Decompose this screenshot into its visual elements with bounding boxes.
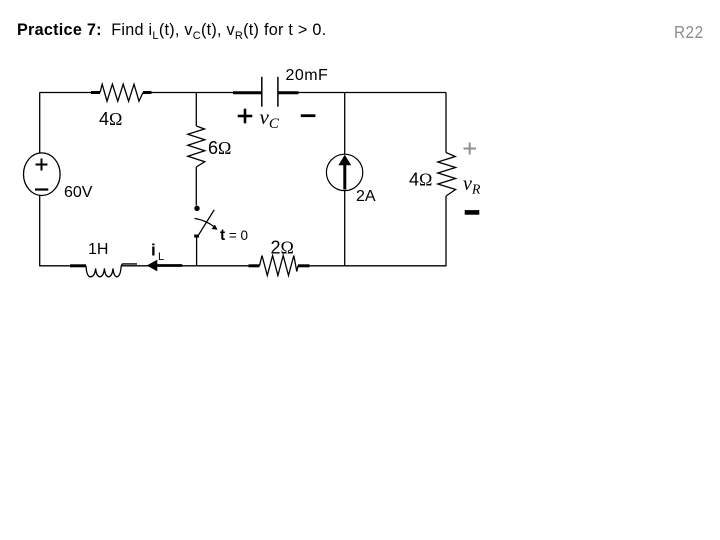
resistor 2ohm (bottom zigzag) [249,256,310,276]
wire: top-left horizontal segment [40,92,92,94]
label minus sign of vC [301,114,316,117]
wire: switch to bottom wire [196,238,198,267]
slide tag R22 [674,22,704,43]
svg-text:4Ω: 4Ω [409,170,432,190]
resistor 6ohm (vertical zigzag) [188,126,205,167]
title text [17,21,326,40]
svg-text:6Ω: 6Ω [208,138,231,158]
switch t=0 (opening switch) [194,206,217,238]
wire: current source branch lower [344,191,346,267]
wire: top right segment [299,92,447,94]
svg-text:2A: 2A [356,188,376,205]
wire: right branch upper [445,93,447,153]
svg-text:vR: vR [463,173,481,198]
wire: left vertical upper (to voltage source) [39,93,41,154]
svg-text:60V: 60V [64,184,93,201]
label plus sign of vC [238,109,253,124]
current source I1 2A (circle with up arrow) [326,154,362,190]
svg-text:L: L [158,251,164,263]
wire: bottom right segment [310,265,447,267]
svg-text:i: i [151,241,156,260]
resistor 4ohm right (vertical zigzag) [438,153,456,197]
capacitor 20mF [233,77,299,107]
svg-text:2Ω: 2Ω [271,238,294,258]
wire: top middle segment to capacitor [152,92,234,94]
svg-text:20mF: 20mF [286,67,329,84]
svg-text:1H: 1H [88,241,108,258]
current arrow iL (bold left arrow) [147,260,183,272]
label plus sign of vR (gray) [464,143,477,155]
wire: 6ohm branch upper [195,93,197,126]
wire: bottom-left horizontal [40,265,71,267]
wire: current source branch upper [344,93,346,155]
wire: bottom middle segment [121,265,248,267]
label minus sign of vR (bold) [465,210,480,215]
svg-text:t = 0: t = 0 [220,227,248,244]
svg-text:vC: vC [260,105,280,132]
wire: 6ohm branch lower to switch [195,167,197,206]
svg-text:4Ω: 4Ω [99,109,122,129]
resistor 4ohm top: thick leads and zigzag [91,84,152,101]
wire: left vertical lower [39,196,41,267]
voltage source V1 60V (circle with plus/minus) [24,153,61,196]
wire: right branch lower [445,196,447,266]
inductor 1H (scalloped coil) [70,264,137,277]
